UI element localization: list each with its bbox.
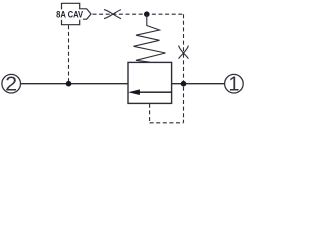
flow arrow inside valve xyxy=(128,89,172,95)
node: junction of pilot line and spring xyxy=(144,11,150,17)
node: junction on port 2 line xyxy=(66,81,72,87)
wire: dashed pilot line from cavity to right corner xyxy=(93,13,184,15)
wire: port 1 line xyxy=(172,83,225,85)
svg-text:2: 2 xyxy=(5,74,17,96)
node: junction on port 1 line xyxy=(181,81,187,87)
wire: dashed vertical pilot line on right xyxy=(183,14,185,123)
plugged orifice X1 on pilot line xyxy=(104,10,121,19)
wire: port 2 line xyxy=(21,83,128,85)
spring xyxy=(134,14,166,62)
wire: dashed bottom pilot return to valve xyxy=(149,104,151,123)
svg-text:1: 1 xyxy=(228,74,239,96)
label 8A CAV xyxy=(55,9,84,20)
svg-text:8A CAV: 8A CAV xyxy=(56,9,84,20)
valve envelope (relief valve body) xyxy=(128,62,172,103)
cavity outline 8A CAV xyxy=(62,3,92,24)
port 1 xyxy=(225,74,244,96)
port 2 xyxy=(2,74,21,96)
plugged orifice X2 on vertical pilot line xyxy=(179,46,189,59)
wire: dashed drain from cavity down to port 2 line xyxy=(68,25,70,83)
